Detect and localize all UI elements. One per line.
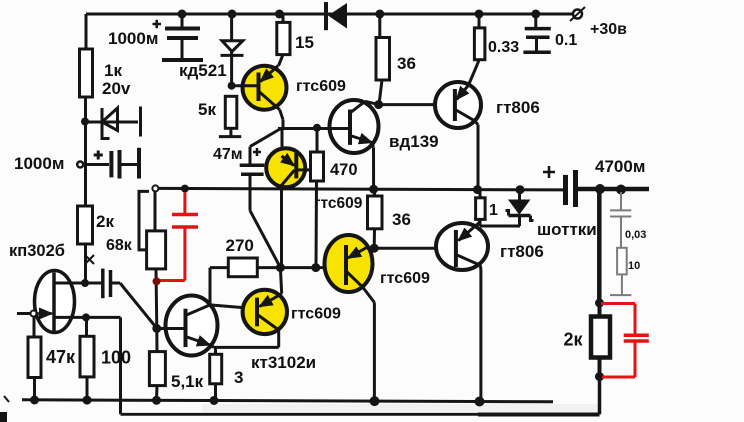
svg-text:5,1к: 5,1к (171, 372, 204, 391)
svg-text:0.1: 0.1 (555, 32, 577, 49)
gnd tick left (4, 396, 9, 402)
node dot q4 emitter (370, 244, 379, 253)
resistor 5к (219, 96, 241, 136)
node dot drain (81, 279, 89, 287)
svg-text:вд139: вд139 (389, 132, 439, 151)
node dot 2k top (595, 299, 604, 308)
node dot gnd q6 (475, 397, 485, 407)
node dot 2k bottom (595, 372, 604, 381)
wire diagonal nodeB to 47м (250, 129, 280, 147)
wire 2k bottom to feedback (598, 377, 602, 415)
svg-text:гт806: гт806 (500, 242, 544, 261)
svg-text:15: 15 (295, 33, 314, 52)
node dot gnd 3 (210, 396, 219, 405)
resistor 0.33 (474, 14, 485, 64)
svg-text:гтс609: гтс609 (314, 195, 363, 212)
transistor кп302б JFET (17, 271, 121, 333)
wire kt3102 emitter to q3 collector (214, 346, 279, 349)
node dot vd139 emitter rail (369, 185, 378, 194)
svg-text:20v: 20v (102, 79, 131, 98)
wire left branch down (85, 14, 88, 49)
transistor Q1 гтс609 (232, 66, 287, 120)
wire vd139 to gt806 base (379, 103, 455, 106)
resistor 36 second (368, 190, 383, 249)
node dot 68k base junction (152, 324, 161, 333)
svg-text:4700м: 4700м (595, 157, 645, 176)
svg-text:шоттки: шоттки (537, 220, 597, 239)
capacitor 0.1 (523, 14, 550, 52)
resistor 2к output (591, 303, 610, 377)
capacitor 1000м top (153, 14, 204, 60)
capacitor coupling gate (86, 269, 158, 329)
svg-text:гтс609: гтс609 (380, 270, 430, 287)
terminal circle 68k top (152, 185, 158, 191)
svg-text:3: 3 (234, 368, 243, 387)
svg-text:470: 470 (330, 161, 358, 179)
node dot 470 top (313, 124, 321, 132)
wire feedback down (119, 317, 122, 414)
node dot q3 emitter (276, 263, 285, 272)
wire q4 emitter to gt806-2 base (374, 247, 456, 250)
capacitor 4700м output (543, 166, 576, 207)
resistor 68к (139, 191, 166, 329)
diode шоттки (506, 189, 534, 227)
node dot top rail F (531, 10, 540, 19)
corner mark (0, 412, 7, 422)
svg-text:1000м: 1000м (108, 29, 158, 48)
node dot top rail E (475, 10, 484, 19)
node dot red cap top (181, 185, 189, 193)
wire output down thick (597, 189, 602, 303)
wire mid output rail (157, 188, 566, 190)
wire node B horizontal (278, 127, 350, 130)
svg-text:5к: 5к (198, 100, 216, 119)
wire +30V top rail (86, 13, 573, 16)
svg-text:1к: 1к (104, 61, 122, 80)
wire ground rail (22, 400, 553, 402)
node dot zener (81, 118, 89, 126)
resistor 36 first (376, 14, 390, 105)
resistor 5,1к (149, 329, 165, 401)
terminal circle gate input (31, 311, 37, 317)
node dot 470 bottom (311, 263, 320, 272)
resistor 2к left (78, 206, 93, 244)
resistor 15 (277, 14, 290, 66)
node dot top rail C (275, 10, 284, 19)
node dot vd139 collector (374, 100, 383, 109)
wire q2 emitter stem (281, 129, 284, 158)
node dot schottky rail (516, 185, 525, 194)
terminal circle left mid (77, 162, 83, 168)
svg-text:47к: 47к (46, 347, 76, 367)
svg-text:36: 36 (397, 54, 416, 73)
svg-text:2к: 2к (564, 330, 584, 350)
node dot gnd q4 (370, 396, 380, 406)
diode кд521 (221, 14, 244, 86)
svg-text:кт3102и: кт3102и (251, 353, 316, 372)
svg-text:36: 36 (392, 210, 411, 229)
resistor 1 (476, 190, 520, 227)
wire q1 collector to node B (282, 120, 285, 129)
svg-text:гтс609: гтс609 (296, 78, 346, 95)
svg-text:кп302б: кп302б (9, 242, 65, 260)
svg-text:10: 10 (628, 260, 640, 272)
svg-text:68к: 68к (106, 237, 133, 254)
resistor 3 (210, 347, 222, 400)
svg-text:0,03: 0,03 (625, 229, 646, 241)
transistor Q3 гтс609 (243, 268, 287, 334)
transistor вд139 (317, 100, 379, 190)
transistor Q2 гтс609 (266, 148, 311, 187)
node dot top rail A (178, 10, 187, 19)
wire output thick (578, 187, 649, 192)
node dot red-68k (153, 277, 161, 285)
node dot gnd 47k (30, 396, 39, 405)
wire q4 base line (257, 266, 346, 269)
node dot gt806 collector rail (473, 185, 482, 194)
wire 2k to drain node (84, 244, 87, 283)
wire diagonal 47м to q4 base line (250, 211, 280, 268)
svg-text:0.33: 0.33 (488, 39, 519, 56)
svg-text:гт806: гт806 (496, 98, 540, 117)
capacitor red left (158, 192, 199, 281)
node dot top rail B (228, 10, 237, 19)
node X mark (85, 255, 94, 264)
svg-text:2к: 2к (96, 212, 114, 231)
wire q2 collector down (280, 187, 283, 268)
zobel network gray (610, 192, 631, 295)
diode zener 20v (86, 107, 141, 139)
svg-text:+30в: +30в (590, 21, 627, 38)
wire 1k to zener node (84, 97, 87, 206)
resistor 270 (210, 258, 257, 309)
svg-text:100: 100 (101, 348, 131, 368)
svg-text:гтс609: гтс609 (291, 306, 341, 323)
svg-text:1: 1 (489, 202, 498, 219)
node dot out2 (616, 185, 626, 195)
transistor кт3102и (157, 296, 218, 356)
node dot q1 base (228, 82, 236, 90)
node dot source (82, 313, 90, 321)
svg-text:1000м: 1000м (14, 154, 64, 173)
transistor Q4 гтс609 driver (325, 235, 375, 401)
wire feedback bottom (121, 413, 481, 416)
transistor гт806 bottom (436, 219, 488, 401)
capacitor 47м (240, 147, 265, 211)
node dot out1 (595, 184, 605, 194)
node dot gnd 100 (83, 396, 92, 405)
node dot top rail D (375, 10, 384, 19)
resistor 47к (28, 316, 41, 401)
node dot gnd 5.1k (152, 396, 161, 405)
transistor гт806 top (435, 64, 481, 190)
scan band artifact (202, 404, 598, 412)
svg-text:270: 270 (226, 236, 254, 255)
terminal +30V (570, 7, 585, 21)
svg-text:47м: 47м (213, 146, 243, 163)
resistor 100 (80, 317, 94, 400)
resistor 1к (80, 49, 93, 97)
capacitor 1000м left (84, 148, 139, 179)
wire q3 collector down (277, 330, 280, 347)
resistor 470 (311, 128, 324, 268)
diode supply rail (326, 2, 347, 30)
svg-text:кд521: кд521 (179, 61, 227, 80)
capacitor red right (601, 304, 649, 378)
